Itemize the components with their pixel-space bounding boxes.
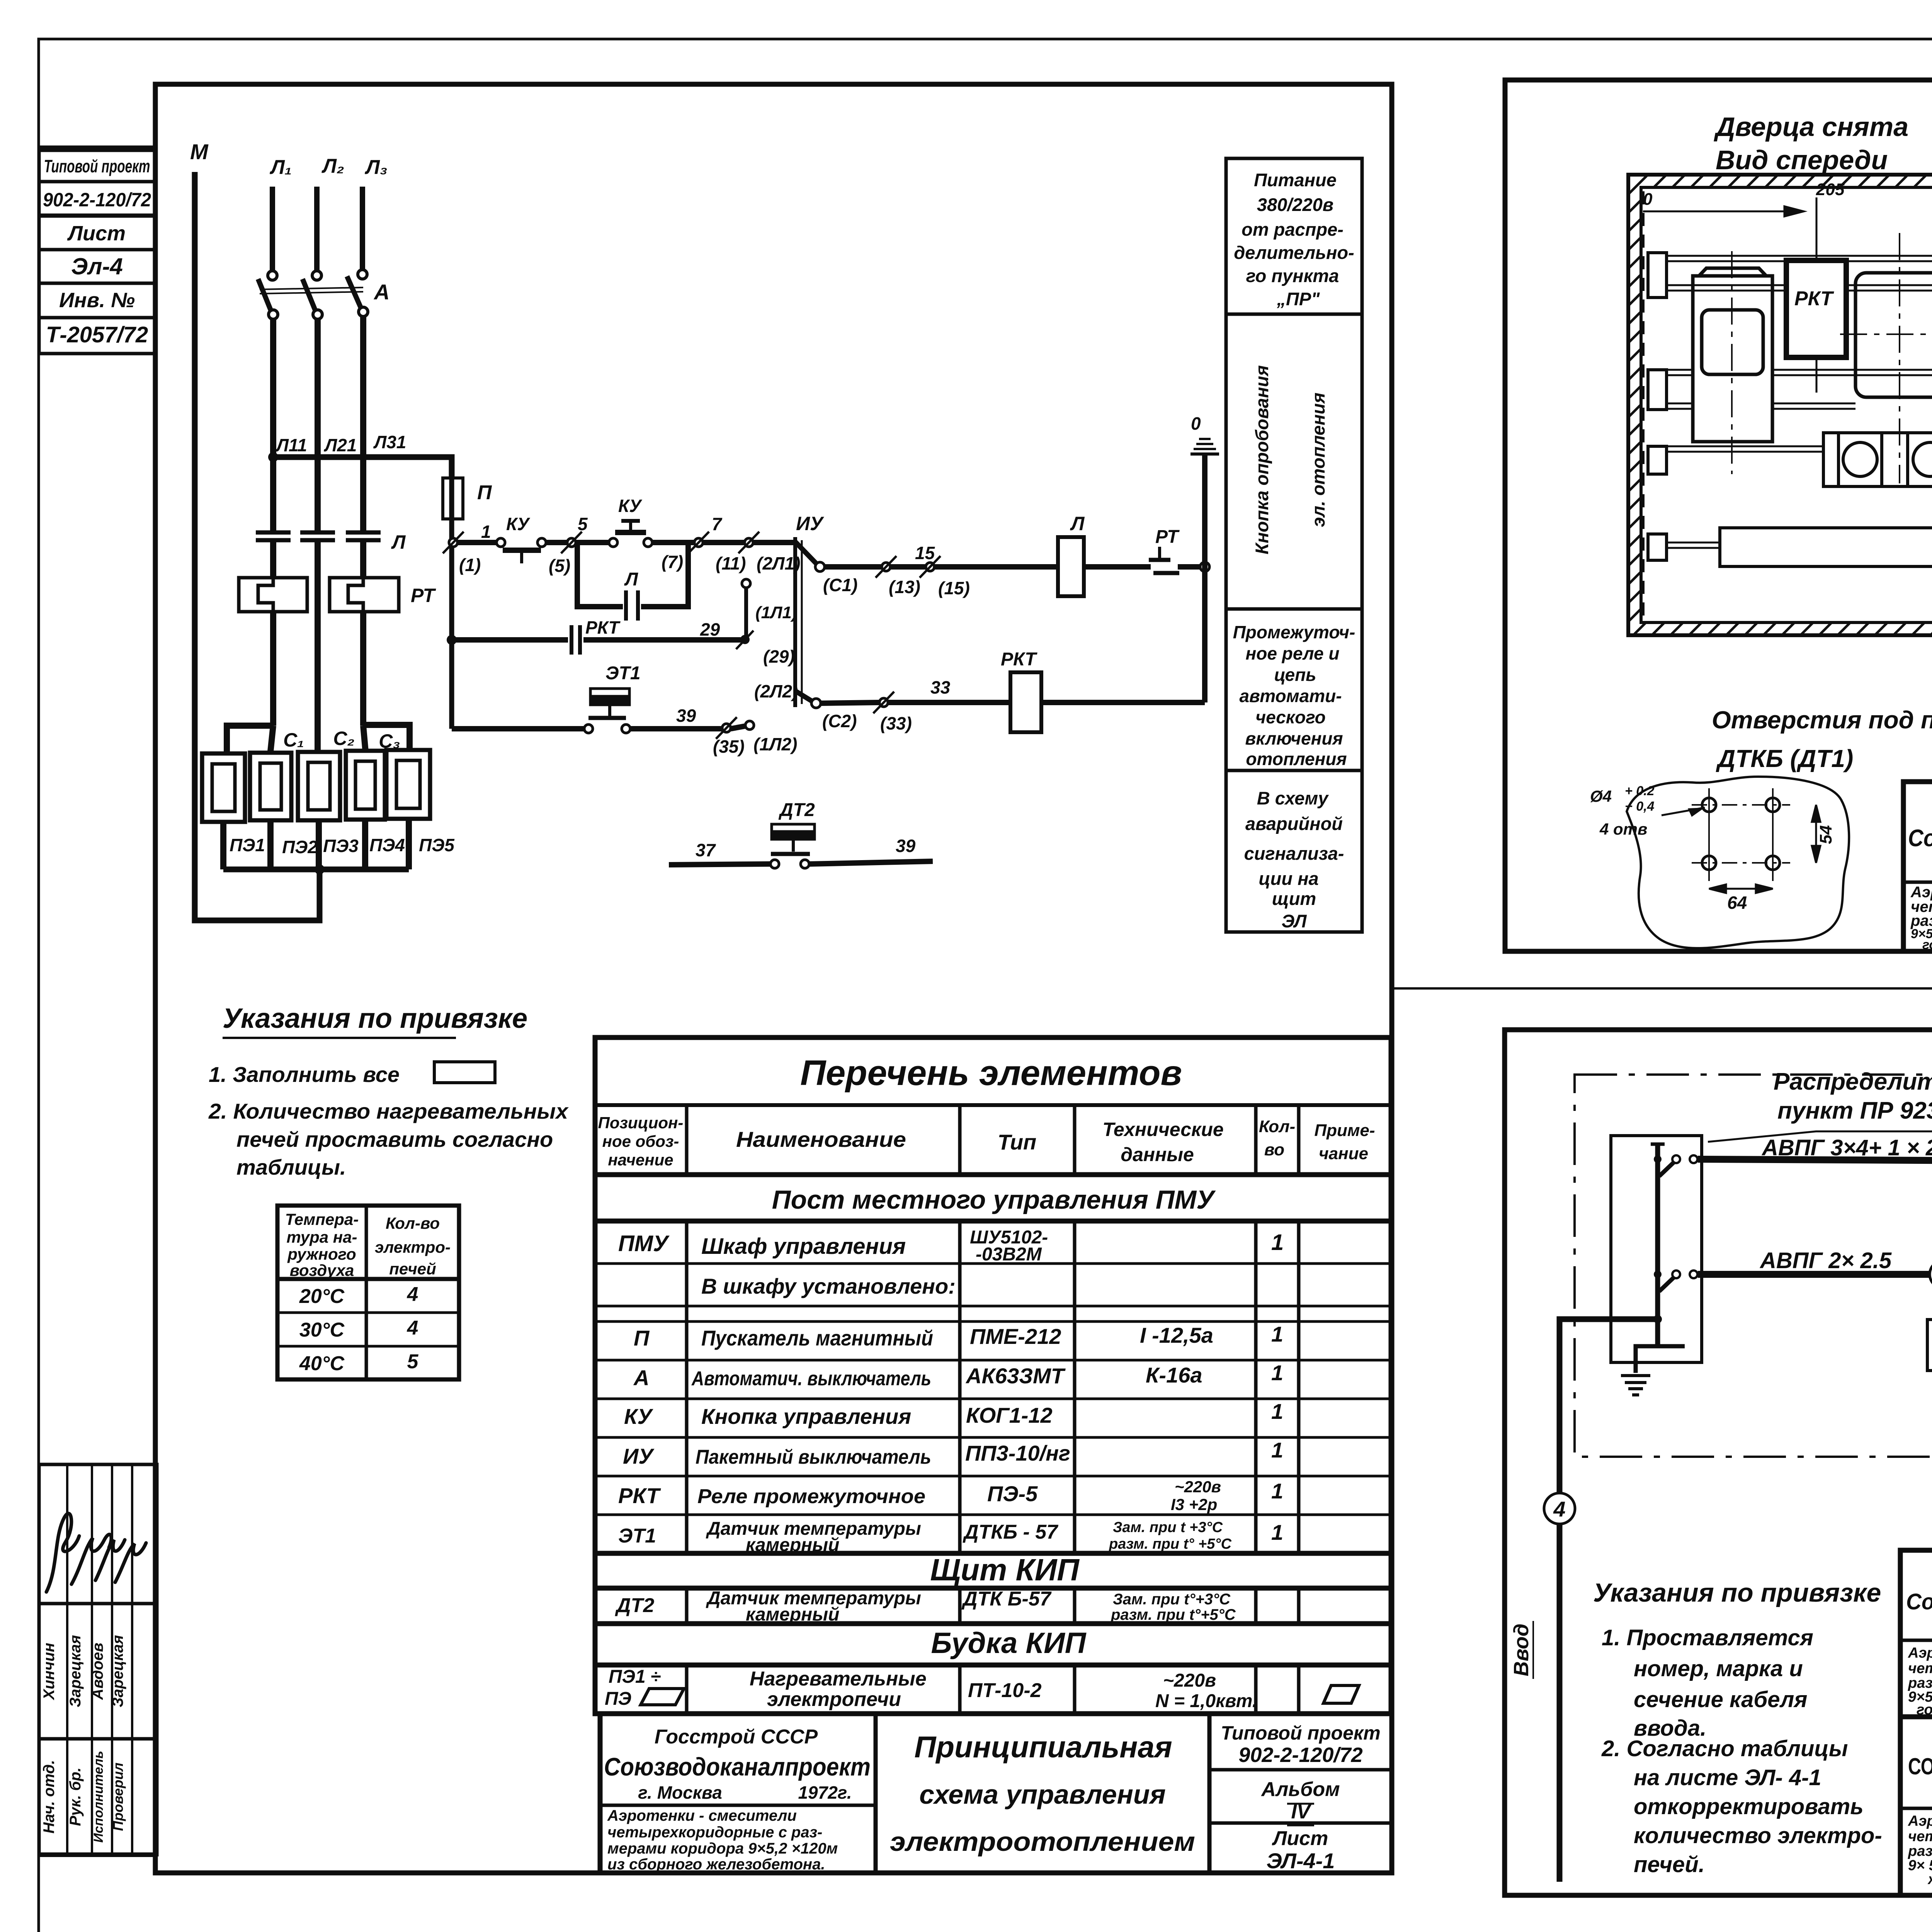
right vertical wire to earth bbox=[1202, 454, 1207, 702]
note 2 количество печей bbox=[208, 1099, 569, 1179]
svg-text:Хинчин: Хинчин bbox=[41, 1643, 58, 1700]
svg-text:Альбом: Альбом bbox=[1260, 1778, 1340, 1801]
svg-text:Автоматич. выключатель: Автоматич. выключатель bbox=[691, 1367, 931, 1390]
svg-text:КУ: КУ bbox=[618, 496, 643, 516]
front view cabinet walls (hatched) bbox=[1628, 175, 1932, 635]
svg-text:откорректировать: откорректировать bbox=[1634, 1794, 1864, 1819]
svg-text:380/220в: 380/220в bbox=[1257, 194, 1333, 215]
svg-text:1: 1 bbox=[1271, 1479, 1283, 1503]
svg-text:(С1): (С1) bbox=[823, 575, 857, 595]
svg-text:начение: начение bbox=[608, 1151, 673, 1169]
section band Щит КИП bbox=[930, 1553, 1080, 1587]
svg-text:ное реле и: ное реле и bbox=[1246, 643, 1340, 663]
relay РКТ block bbox=[1786, 260, 1846, 357]
svg-text:А: А bbox=[373, 280, 389, 304]
feeder 4 cable bbox=[1698, 1274, 1932, 1320]
feeder 3 cable bbox=[1698, 1159, 1932, 1227]
svg-text:Типовой проект: Типовой проект bbox=[1221, 1722, 1380, 1744]
wire fuse to row A bbox=[449, 519, 454, 729]
svg-text:Типовой проект: Типовой проект bbox=[44, 156, 150, 176]
svg-text:Авдоев: Авдоев bbox=[89, 1643, 106, 1700]
svg-text:I3 +2р: I3 +2р bbox=[1171, 1495, 1217, 1514]
title block ЭЛ-4-1 bbox=[600, 1714, 1392, 1873]
svg-text:37: 37 bbox=[696, 840, 716, 860]
node (С2) bbox=[811, 699, 821, 708]
svg-text:(13): (13) bbox=[889, 577, 920, 597]
svg-text:1: 1 bbox=[1271, 1520, 1283, 1544]
svg-text:ЭЛ: ЭЛ bbox=[1282, 911, 1308, 931]
svg-text:Исполнитель: Исполнитель bbox=[91, 1751, 106, 1843]
svg-text:пункт ПР 9232: пункт ПР 9232 bbox=[1777, 1097, 1932, 1124]
svg-text:7: 7 bbox=[712, 514, 723, 534]
svg-text:С₁: С₁ bbox=[283, 729, 304, 751]
junction М-bus bbox=[315, 864, 325, 874]
svg-text:Т-2057/72: Т-2057/72 bbox=[46, 322, 148, 347]
labels С1 Се С3 bbox=[283, 728, 400, 752]
note: питание 380/220в bbox=[1234, 170, 1354, 309]
svg-text:29: 29 bbox=[700, 619, 720, 639]
svg-text:из сборного железобетона.: из сборного железобетона. bbox=[607, 1856, 825, 1873]
breaker А block bbox=[1855, 273, 1932, 397]
svg-text:Нач. отд.: Нач. отд. bbox=[41, 1760, 58, 1833]
svg-text:П: П bbox=[634, 1326, 650, 1350]
bottom terminal strip bbox=[1720, 528, 1932, 566]
svg-text:ПЭ: ПЭ bbox=[605, 1689, 631, 1709]
right text column box bbox=[1226, 158, 1362, 932]
svg-text:1: 1 bbox=[1271, 1361, 1283, 1385]
svg-text:ПМЕ-212: ПМЕ-212 bbox=[970, 1324, 1061, 1349]
svg-text:20°С: 20°С bbox=[299, 1285, 345, 1308]
notes right bbox=[1601, 1625, 1882, 1877]
svg-text:1. Заполнить все: 1. Заполнить все bbox=[209, 1062, 400, 1087]
svg-text:Зам. при t°+3°С: Зам. при t°+3°С bbox=[1113, 1591, 1231, 1608]
svg-text:четырехкоридорные с: четырехкоридорные с bbox=[1908, 1660, 1932, 1677]
svg-text:Вид спереди: Вид спереди bbox=[1716, 145, 1888, 175]
wire М (neutral) bbox=[195, 172, 320, 920]
svg-text:эл. отопления: эл. отопления bbox=[1308, 393, 1328, 527]
terminal 0 with earth bbox=[1191, 413, 1201, 434]
svg-text:Эл-4: Эл-4 bbox=[71, 253, 123, 279]
svg-text:~220в: ~220в bbox=[1175, 1478, 1221, 1496]
wire + slash (5) bbox=[546, 540, 567, 545]
heater ПЭ4 bbox=[346, 751, 385, 820]
svg-text:ПЭ1: ПЭ1 bbox=[230, 835, 265, 855]
svg-text:КУ: КУ bbox=[506, 514, 531, 534]
svg-text:-03В2М: -03В2М bbox=[976, 1244, 1042, 1265]
svg-text:4: 4 bbox=[407, 1283, 418, 1306]
svg-text:Пускатель магнитный: Пускатель магнитный bbox=[701, 1326, 933, 1350]
svg-text:количество электро-: количество электро- bbox=[1634, 1823, 1882, 1848]
contact (1Л2) bbox=[745, 721, 754, 730]
svg-text:печей проставить согласно: печей проставить согласно bbox=[236, 1127, 553, 1151]
svg-text:ДТ2: ДТ2 bbox=[615, 1594, 654, 1617]
svg-text:СОЮЗВОДОКАНАЛПРОЕКТ: СОЮЗВОДОКАНАЛПРОЕКТ bbox=[1908, 1753, 1932, 1779]
svg-text:номер, марка и: номер, марка и bbox=[1634, 1656, 1803, 1681]
svg-text:Кол-во: Кол-во bbox=[386, 1214, 440, 1232]
РП switch 1 bbox=[1654, 1155, 1697, 1176]
svg-text:„ПР": „ПР" bbox=[1277, 289, 1320, 309]
svg-text:четырехкоридорные с раз-: четырехкоридорные с раз- bbox=[607, 1824, 822, 1841]
svg-text:ЭТ1: ЭТ1 bbox=[605, 663, 641, 684]
row 29: РКТ contact bbox=[452, 625, 746, 655]
svg-text:от распре-: от распре- bbox=[1242, 219, 1344, 240]
svg-text:Темпера-: Темпера- bbox=[285, 1210, 359, 1228]
section band ПМУ bbox=[772, 1185, 1216, 1214]
sensor ДТ2 bbox=[778, 800, 815, 820]
svg-text:четырехкоридорные с: четырехкоридорные с bbox=[1908, 1828, 1932, 1845]
fuse П bbox=[443, 478, 463, 519]
svg-text:АВПГ 2× 2.5: АВПГ 2× 2.5 bbox=[1759, 1248, 1892, 1273]
svg-text:Л₃: Л₃ bbox=[364, 156, 388, 179]
svg-text:Щит КИП: Щит КИП bbox=[930, 1553, 1080, 1587]
heater ПЭ2 bbox=[250, 753, 291, 820]
hole callout Ø4 bbox=[1590, 784, 1655, 838]
svg-text:1: 1 bbox=[1271, 1230, 1284, 1255]
heading Дверца снята Вид спереди bbox=[1714, 112, 1932, 175]
svg-text:Инв. №: Инв. № bbox=[59, 289, 135, 312]
svg-text:4: 4 bbox=[1553, 1497, 1565, 1521]
slash (33) bbox=[873, 692, 894, 713]
svg-text:Нагревательные: Нагревательные bbox=[750, 1668, 927, 1690]
РП earth branch bbox=[1621, 1346, 1685, 1395]
svg-text:(15): (15) bbox=[938, 578, 970, 598]
svg-text:ружного: ружного bbox=[287, 1245, 356, 1263]
svg-text:ИУ: ИУ bbox=[623, 1444, 655, 1468]
svg-text:г. Москва: г. Москва bbox=[638, 1782, 722, 1803]
svg-text:Технические: Технические bbox=[1102, 1119, 1223, 1140]
svg-text:ции на: ции на bbox=[1259, 868, 1318, 889]
svg-text:Л11: Л11 bbox=[275, 435, 307, 455]
svg-text:(29): (29) bbox=[763, 646, 795, 667]
svg-text:Дверца снята: Дверца снята bbox=[1714, 112, 1908, 142]
svg-text:Л: Л bbox=[624, 569, 638, 590]
thermal contact РТ bbox=[1149, 547, 1179, 573]
svg-text:камерный: камерный bbox=[746, 1535, 839, 1555]
svg-text:КОГ1-12: КОГ1-12 bbox=[966, 1403, 1053, 1427]
svg-text:ЭЛ-4-1: ЭЛ-4-1 bbox=[1267, 1849, 1335, 1873]
svg-text:РКТ: РКТ bbox=[585, 617, 621, 638]
svg-text:автомати-: автомати- bbox=[1239, 686, 1342, 706]
labels Л1 Л2 Л3 bbox=[269, 155, 388, 179]
title block ЭЛ-4-3 (upper) bbox=[1900, 1550, 1932, 1717]
РП cabinet box bbox=[1611, 1136, 1702, 1362]
РП switch 2 bbox=[1654, 1270, 1697, 1291]
svg-text:Л21: Л21 bbox=[324, 435, 357, 455]
svg-text:205: 205 bbox=[1816, 180, 1845, 199]
svg-text:Кнопка управления: Кнопка управления bbox=[701, 1404, 911, 1429]
svg-text:АВПГ 3×4+ 1 × 2.5: АВПГ 3×4+ 1 × 2.5 bbox=[1761, 1135, 1932, 1160]
title block ЭЛ-4 (lower) bbox=[1900, 1717, 1932, 1895]
svg-text:ПП3-10/нг: ПП3-10/нг bbox=[965, 1441, 1070, 1465]
row КУ bbox=[624, 1399, 1283, 1429]
title block ЭЛ-4-2 bbox=[1903, 782, 1932, 951]
temperature table bbox=[277, 1206, 459, 1379]
node (С1) bbox=[815, 562, 825, 571]
svg-text:А: А bbox=[633, 1366, 649, 1390]
svg-text:разм. при t° +5°С: разм. при t° +5°С bbox=[1109, 1536, 1232, 1552]
ИУ blade 1 bbox=[795, 542, 817, 564]
svg-text:го железобетона.: го железобетона. bbox=[1922, 937, 1932, 952]
stamp block top-left (Типовой проект) bbox=[39, 147, 155, 354]
heater bottom stubs bbox=[223, 819, 409, 869]
svg-text:Будка КИП: Будка КИП bbox=[931, 1627, 1087, 1660]
svg-text:воздуха: воздуха bbox=[290, 1261, 354, 1279]
svg-text:4 отв: 4 отв bbox=[1599, 820, 1647, 838]
svg-text:ИУ: ИУ bbox=[796, 513, 825, 534]
svg-text:(С2): (С2) bbox=[822, 711, 857, 731]
svg-text:электроотоплением: электроотоплением bbox=[890, 1827, 1195, 1857]
slash (35) bbox=[716, 717, 737, 739]
svg-text:КУ: КУ bbox=[624, 1404, 653, 1429]
row РКТ bbox=[618, 1478, 1283, 1514]
svg-text:Распределительный: Распределительный bbox=[1774, 1068, 1932, 1095]
heater ПЭ3 bbox=[298, 752, 340, 820]
svg-text:электропечи: электропечи bbox=[767, 1688, 901, 1711]
table title bbox=[800, 1053, 1182, 1093]
button КУ (NC) bbox=[497, 538, 546, 563]
svg-text:размерами коридора: размерами коридора bbox=[1908, 1843, 1932, 1859]
svg-text:+ 0.2: + 0.2 bbox=[1625, 784, 1655, 798]
svg-text:ное обоз-: ное обоз- bbox=[602, 1132, 679, 1150]
svg-text:Зарецкая: Зарецкая bbox=[109, 1635, 126, 1707]
node on right wire bbox=[1200, 562, 1209, 571]
svg-text:5: 5 bbox=[407, 1350, 419, 1373]
svg-text:(2Л2): (2Л2) bbox=[754, 681, 798, 701]
svg-text:1: 1 bbox=[1271, 1399, 1283, 1423]
svg-text:Реле промежуточное: Реле промежуточное bbox=[697, 1485, 925, 1508]
note: промежуточное реле bbox=[1233, 622, 1355, 769]
svg-text:(5): (5) bbox=[549, 556, 570, 576]
svg-text:электро-: электро- bbox=[375, 1238, 451, 1256]
svg-text:Союзводоканалпроект: Союзводоканалпроект bbox=[604, 1752, 871, 1781]
IV numeral bars bbox=[1287, 874, 1932, 1830]
svg-text:1: 1 bbox=[1271, 1438, 1283, 1462]
slash (7) bbox=[688, 532, 709, 553]
phase wires below Л contacts bbox=[273, 540, 363, 750]
row П bbox=[634, 1322, 1283, 1350]
self-hold branch with contact Л bbox=[577, 543, 688, 621]
svg-text:Приме-: Приме- bbox=[1314, 1121, 1375, 1140]
svg-text:на листе ЭЛ- 4-1: на листе ЭЛ- 4-1 bbox=[1634, 1765, 1821, 1790]
svg-text:В схему: В схему bbox=[1257, 788, 1329, 808]
slash (15) bbox=[920, 556, 940, 578]
svg-text:Позицион-: Позицион- bbox=[598, 1114, 684, 1132]
svg-text:сигнализа-: сигнализа- bbox=[1244, 843, 1344, 864]
svg-text:аварийной: аварийной bbox=[1245, 813, 1343, 834]
svg-text:Пост местного управления: Пост местного управления ПМУ bbox=[772, 1185, 1216, 1214]
svg-text:РКТ: РКТ bbox=[618, 1483, 661, 1508]
svg-text:64: 64 bbox=[1727, 893, 1747, 913]
svg-text:М: М bbox=[190, 139, 209, 164]
svg-text:мерами коридора 9×5,2 ×120м: мерами коридора 9×5,2 ×120м bbox=[607, 1840, 838, 1857]
svg-text:N = 1,0квт.: N = 1,0квт. bbox=[1155, 1691, 1257, 1711]
svg-text:РКТ: РКТ bbox=[1794, 287, 1834, 310]
phase wires to heater nodes bbox=[273, 612, 363, 726]
phase wires above breaker bbox=[272, 187, 362, 270]
heading Указания по привязке (right) bbox=[1593, 1578, 1881, 1607]
row в шкафу установлено bbox=[701, 1274, 956, 1298]
Ввод riser with mark 4 bbox=[1560, 1319, 1658, 1882]
svg-text:Союзводоканалпроект: Союзводоканалпроект bbox=[1908, 825, 1932, 852]
svg-text:Указания по привязке: Указания по привязке bbox=[223, 1003, 527, 1034]
svg-text:отопления: отопления bbox=[1246, 749, 1347, 769]
section band Будка КИП bbox=[931, 1627, 1087, 1660]
contactor Л main contacts bbox=[256, 532, 381, 540]
dash-dot boundary bbox=[1575, 1075, 1932, 1457]
svg-text:Лист: Лист bbox=[67, 222, 126, 245]
svg-text:Зам. при t +3°С: Зам. при t +3°С bbox=[1113, 1519, 1223, 1536]
svg-text:Указания по привязке: Указания по привязке bbox=[1593, 1578, 1881, 1607]
svg-text:I -12,5а: I -12,5а bbox=[1140, 1323, 1213, 1347]
mounting rails bbox=[1667, 256, 1932, 548]
bottom-right panel frame bbox=[1505, 1030, 1932, 1895]
heading Указания по привязке (left) bbox=[223, 1003, 527, 1034]
svg-text:39: 39 bbox=[676, 706, 696, 726]
svg-text:печей: печей bbox=[389, 1260, 436, 1278]
svg-text:РТ: РТ bbox=[411, 585, 436, 606]
svg-text:Аэротенки - смесители: Аэротенки - смесители bbox=[1908, 1813, 1932, 1829]
row B: С1-13-15 bbox=[825, 564, 1201, 570]
divider between right panels bbox=[1392, 987, 1932, 990]
wire row A seg1 bbox=[457, 540, 497, 545]
mounting holes bbox=[1702, 798, 1780, 870]
door hinge dashed line bbox=[1642, 191, 1645, 618]
svg-text:~220в: ~220в bbox=[1163, 1670, 1216, 1691]
dimension 0-205 bbox=[1643, 197, 1816, 393]
svg-text:РКТ: РКТ bbox=[1001, 649, 1037, 670]
svg-text:Питание: Питание bbox=[1254, 170, 1337, 190]
heater ПЭ1 bbox=[202, 753, 245, 822]
svg-text:ЭТ1: ЭТ1 bbox=[618, 1525, 656, 1547]
svg-text:0: 0 bbox=[1191, 413, 1201, 434]
svg-text:Промежуточ-: Промежуточ- bbox=[1233, 622, 1355, 642]
row ПЭ1-ПЭ bbox=[605, 1667, 1257, 1711]
svg-text:Зарецкая: Зарецкая bbox=[67, 1635, 84, 1707]
svg-text:го пункта: го пункта bbox=[1246, 265, 1339, 286]
svg-text:ДТК Б-57: ДТК Б-57 bbox=[961, 1588, 1052, 1610]
svg-text:4: 4 bbox=[407, 1317, 418, 1339]
ДТ2 row wires bbox=[669, 861, 933, 865]
svg-text:сечение кабеля: сечение кабеля bbox=[1634, 1687, 1807, 1712]
svg-text:54: 54 bbox=[1816, 825, 1835, 844]
svg-text:схема управления: схема управления bbox=[919, 1779, 1166, 1810]
row А bbox=[633, 1361, 1283, 1390]
РП busbar bbox=[1655, 1144, 1660, 1346]
svg-text:ДТ2: ДТ2 bbox=[778, 800, 815, 820]
svg-text:(1Л2): (1Л2) bbox=[753, 734, 797, 754]
wire row A seg3 bbox=[652, 540, 794, 545]
svg-text:тура на-: тура на- bbox=[286, 1228, 357, 1246]
svg-text:(1): (1) bbox=[459, 555, 481, 575]
template blob bbox=[1627, 777, 1849, 948]
svg-text:Кол-: Кол- bbox=[1259, 1117, 1295, 1136]
row ДТ2 bbox=[615, 1588, 1236, 1625]
svg-text:таблицы.: таблицы. bbox=[236, 1155, 346, 1179]
svg-text:ДТКБ - 57: ДТКБ - 57 bbox=[963, 1521, 1058, 1543]
svg-text:Госстрой СССР: Госстрой СССР bbox=[655, 1726, 818, 1748]
row С2-33 bbox=[821, 702, 1205, 703]
svg-text:1: 1 bbox=[481, 522, 491, 542]
thermal relay РТ heaters bbox=[239, 578, 399, 612]
row 39 with ЭТ1 contact bbox=[452, 726, 745, 729]
row ЭТ1 bbox=[618, 1519, 1283, 1555]
note Отверстия под прибор bbox=[1712, 706, 1932, 772]
svg-text:П: П bbox=[477, 481, 492, 504]
left wall tabs bbox=[1648, 253, 1667, 560]
svg-text:Лист: Лист bbox=[1272, 1827, 1328, 1850]
svg-text:Отверстия под прибор: Отверстия под прибор bbox=[1712, 706, 1932, 734]
svg-text:15: 15 bbox=[915, 543, 935, 563]
svg-text:ПТ-10-2: ПТ-10-2 bbox=[968, 1679, 1042, 1702]
svg-text:39: 39 bbox=[896, 836, 916, 856]
svg-text:Л₁: Л₁ bbox=[269, 156, 292, 179]
note: кнопка опробования (rotated) bbox=[1252, 365, 1328, 554]
cable mark 4 bbox=[1930, 1260, 1932, 1288]
starter П block bbox=[1693, 268, 1772, 442]
blank box bbox=[434, 1062, 495, 1083]
svg-text:К-16а: К-16а bbox=[1146, 1363, 1202, 1387]
svg-text:1972г.: 1972г. bbox=[798, 1782, 852, 1803]
svg-text:Аэротенки - смесители: Аэротенки - смесители bbox=[607, 1807, 797, 1824]
svg-text:ДТКБ (ДТ1): ДТКБ (ДТ1) bbox=[1716, 745, 1853, 772]
heater ПЭ5 bbox=[386, 750, 430, 819]
control tap wire bbox=[273, 457, 452, 478]
svg-text:делительно-: делительно- bbox=[1234, 242, 1354, 263]
svg-text:ПЭ4: ПЭ4 bbox=[369, 835, 405, 855]
svg-text:5: 5 bbox=[578, 514, 588, 534]
svg-text:Ввод: Ввод bbox=[1510, 1624, 1533, 1677]
relay coil РКТ bbox=[1010, 672, 1041, 732]
wire to КУ2 bbox=[576, 540, 609, 545]
svg-text:Л₂: Л₂ bbox=[321, 155, 344, 177]
signature table bottom-left bbox=[39, 1464, 157, 1855]
callout Распределительный пункт bbox=[1774, 1068, 1932, 1124]
slash (13) bbox=[876, 556, 896, 578]
svg-text:Тип: Тип bbox=[998, 1130, 1037, 1154]
svg-text:(7): (7) bbox=[662, 552, 683, 572]
labels ПЭ1..ПЭ5 bbox=[230, 835, 455, 857]
svg-text:40°С: 40°С bbox=[299, 1352, 345, 1375]
svg-text:Л: Л bbox=[1070, 513, 1085, 534]
svg-text:ПЭ5: ПЭ5 bbox=[419, 835, 455, 855]
left panel frame (sheet ЭЛ-4-1) bbox=[155, 84, 1392, 1873]
svg-text:33: 33 bbox=[930, 677, 951, 697]
svg-text:(33): (33) bbox=[880, 713, 912, 733]
svg-text:Принципиальная: Принципиальная bbox=[914, 1730, 1172, 1764]
svg-text:С₂: С₂ bbox=[333, 728, 354, 749]
svg-text:ПМУ: ПМУ bbox=[618, 1231, 670, 1256]
svg-text:Проверил: Проверил bbox=[110, 1762, 126, 1831]
svg-text:Пакетный выключатель: Пакетный выключатель bbox=[696, 1446, 931, 1468]
row ПМУ bbox=[618, 1227, 1284, 1265]
svg-text:Шкаф управления: Шкаф управления bbox=[701, 1234, 906, 1259]
svg-text:ческого: ческого bbox=[1255, 707, 1325, 727]
column headers bbox=[598, 1114, 684, 1169]
ИУ blade 2 bbox=[795, 691, 812, 701]
svg-text:Л: Л bbox=[391, 531, 406, 553]
svg-text:(35): (35) bbox=[713, 736, 745, 757]
svg-text:2. Согласно таблицы: 2. Согласно таблицы bbox=[1601, 1736, 1848, 1761]
svg-text:АК63ЗМТ: АК63ЗМТ bbox=[965, 1364, 1066, 1388]
svg-text:Наименование: Наименование bbox=[736, 1127, 906, 1151]
svg-text:1. Проставляется: 1. Проставляется bbox=[1602, 1625, 1813, 1650]
buttons КУ block bbox=[1823, 433, 1932, 486]
svg-text:включения: включения bbox=[1245, 728, 1343, 748]
svg-text:данные: данные bbox=[1121, 1144, 1194, 1165]
note: в схему аварийной сигнализации bbox=[1244, 788, 1344, 931]
svg-text:Ø4: Ø4 bbox=[1590, 787, 1612, 805]
svg-text:РТ: РТ bbox=[1155, 527, 1180, 547]
